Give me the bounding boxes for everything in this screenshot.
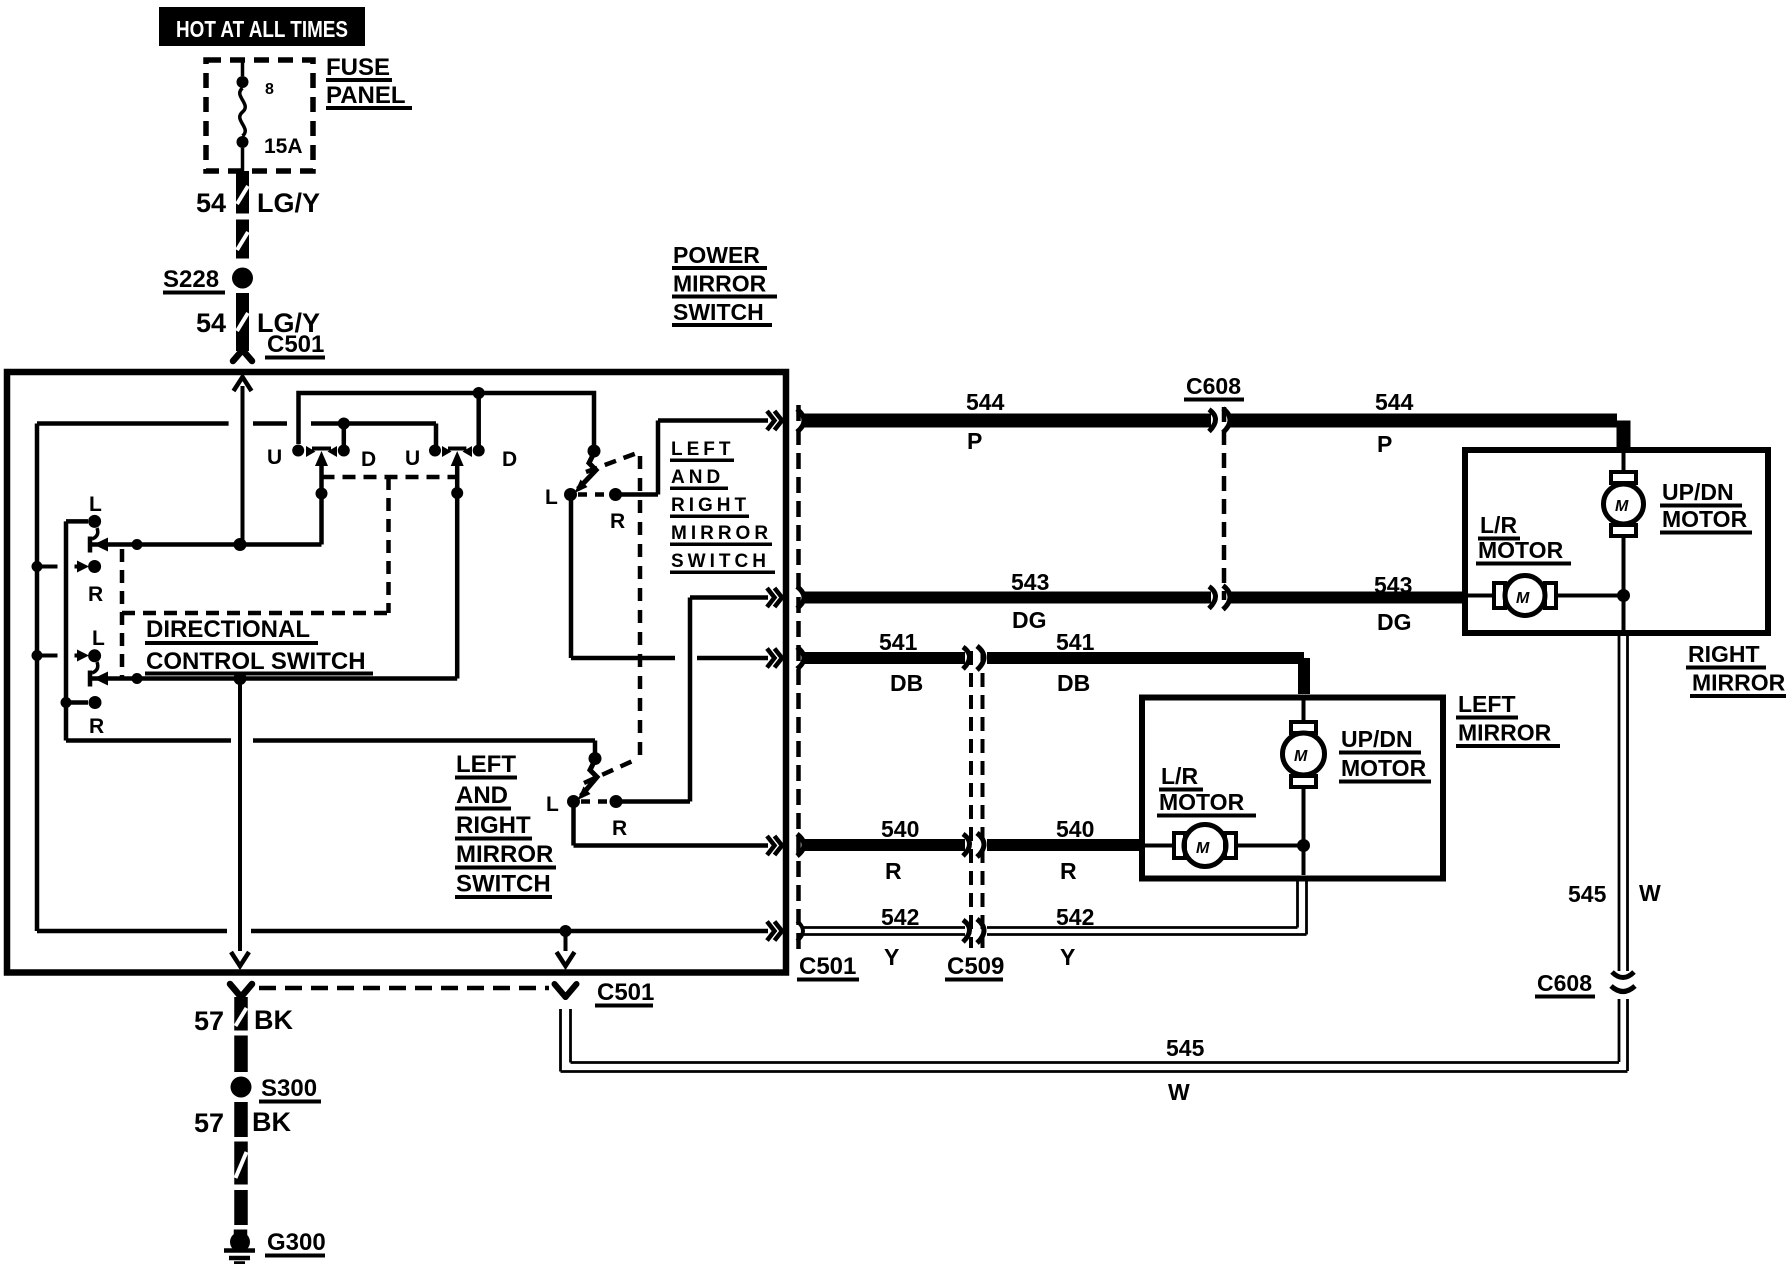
wire lower R contact to 543 output — [616, 598, 768, 802]
svg-text:U: U — [267, 446, 282, 469]
svg-text:C608: C608 — [1537, 970, 1592, 996]
connector C501 (top) — [236, 344, 249, 351]
svg-text:MOTOR: MOTOR — [1662, 506, 1748, 532]
svg-text:RIGHT: RIGHT — [1688, 641, 1760, 667]
wire 541 DB — [803, 652, 965, 664]
left mirror housing — [1142, 698, 1443, 879]
svg-text:W: W — [1168, 1079, 1190, 1105]
switch housing box — [7, 372, 786, 973]
svg-text:540: 540 — [1056, 816, 1094, 842]
l/r motor (right mirror) — [1468, 594, 1494, 598]
svg-text:Y: Y — [884, 944, 899, 970]
svg-text:L: L — [546, 793, 559, 816]
wire ground return bus — [37, 929, 768, 934]
up/dn motor (right mirror) — [1622, 449, 1626, 472]
wire upper L contact to 541 output — [571, 495, 768, 659]
svg-text:MOTOR: MOTOR — [1341, 755, 1427, 781]
svg-text:CONTROL SWITCH: CONTROL SWITCH — [146, 648, 366, 675]
svg-text:L/R: L/R — [1161, 763, 1198, 789]
wire 57 BK upper — [234, 997, 248, 1072]
svg-text:C608: C608 — [1186, 373, 1241, 399]
svg-text:SWITCH: SWITCH — [671, 551, 770, 572]
svg-text:SWITCH: SWITCH — [456, 871, 551, 898]
mech link lower switch — [584, 759, 637, 783]
directional switch pole1 contact R — [37, 565, 84, 569]
directional switch pole2 contact R — [89, 696, 102, 709]
directional switch pole2 contact L — [37, 654, 84, 658]
svg-text:R: R — [612, 817, 627, 840]
connector C501 switch face — [796, 405, 801, 950]
svg-text:R: R — [610, 510, 625, 533]
ground G300 — [230, 1232, 250, 1252]
svg-text:MIRROR: MIRROR — [673, 271, 767, 297]
svg-text:L: L — [545, 486, 558, 509]
svg-text:541: 541 — [879, 629, 918, 655]
svg-text:DG: DG — [1012, 607, 1047, 633]
wire 542 Y — [803, 878, 1307, 935]
svg-text:UP/DN: UP/DN — [1662, 479, 1734, 505]
svg-text:MIRROR: MIRROR — [1458, 720, 1552, 746]
svg-text:MOTOR: MOTOR — [1159, 789, 1245, 815]
svg-text:R: R — [89, 715, 104, 738]
connector C608 (upper) — [1222, 407, 1227, 600]
svg-text:544: 544 — [1375, 389, 1414, 415]
svg-text:MOTOR: MOTOR — [1478, 537, 1564, 563]
node on bus B — [338, 418, 350, 430]
svg-text:545: 545 — [1166, 1035, 1205, 1061]
contact U1 — [292, 445, 304, 457]
svg-text:C501: C501 — [267, 331, 324, 358]
l/r motor (left mirror) — [1145, 844, 1174, 848]
svg-text:RIGHT: RIGHT — [671, 495, 750, 516]
svg-text:MIRROR: MIRROR — [671, 523, 772, 544]
up/dn motor (left mirror) — [1302, 697, 1306, 722]
svg-text:MIRROR: MIRROR — [456, 841, 553, 868]
svg-text:57: 57 — [194, 1006, 224, 1036]
connector C501 (below box, right half) — [555, 984, 577, 997]
svg-text:54: 54 — [196, 308, 226, 338]
fuse F8 15A — [240, 62, 245, 171]
wire 54 LG/Y S228 to C501 — [236, 293, 249, 344]
svg-text:DB: DB — [890, 670, 923, 696]
svg-text:AND: AND — [456, 782, 508, 809]
svg-text:PANEL: PANEL — [326, 82, 406, 109]
svg-text:M: M — [1294, 748, 1308, 765]
wire D2 drop — [476, 393, 481, 445]
svg-text:POWER: POWER — [673, 242, 760, 268]
svg-text:G300: G300 — [267, 1229, 326, 1256]
svg-text:P: P — [1377, 431, 1392, 457]
wire ground branch — [564, 931, 568, 951]
svg-text:545: 545 — [1568, 881, 1607, 907]
splice S300 — [231, 1077, 252, 1098]
svg-text:L/R: L/R — [1480, 512, 1517, 538]
wire B+ vertical upper — [241, 386, 245, 545]
svg-text:LEFT: LEFT — [1458, 691, 1516, 717]
svg-text:542: 542 — [1056, 904, 1094, 930]
wire D1 drop — [342, 424, 347, 446]
svg-text:BK: BK — [252, 1107, 291, 1137]
label FUSE PANEL — [326, 54, 412, 110]
wire 540 R — [803, 839, 965, 851]
svg-text:DB: DB — [1057, 670, 1090, 696]
label DIRECTIONAL CONTROL SWITCH — [145, 616, 373, 676]
svg-text:W: W — [1639, 880, 1661, 906]
directional switch pole1 contact L — [88, 515, 101, 528]
svg-text:L: L — [89, 493, 102, 516]
wire 57 BK lower — [234, 1102, 248, 1237]
wire 545 W vertical — [1622, 596, 1626, 631]
splice S228 — [232, 268, 253, 289]
svg-text:542: 542 — [881, 904, 919, 930]
wire bus B (D1/U2 feed) — [37, 424, 436, 448]
lower mirror select switch — [589, 752, 602, 765]
label LEFT AND RIGHT MIRROR SWITCH (lower) — [455, 751, 556, 899]
label POWER MIRROR SWITCH — [672, 242, 777, 327]
wire bus A (U1/D2 feed) — [299, 393, 595, 447]
wire B+ vertical lower to ground — [238, 679, 242, 952]
svg-text:C501: C501 — [799, 953, 856, 980]
svg-text:R: R — [1060, 858, 1077, 884]
svg-text:C501: C501 — [597, 979, 654, 1006]
svg-text:544: 544 — [966, 389, 1005, 415]
hot-at-all-times banner — [159, 7, 365, 46]
up/down switch pole 2 pivot — [448, 447, 466, 451]
svg-text:P: P — [967, 428, 982, 454]
svg-text:543: 543 — [1011, 569, 1049, 595]
wire 543 DG — [803, 592, 1211, 604]
svg-text:M: M — [1196, 840, 1210, 857]
contact D2 — [473, 445, 485, 457]
wire ladder to lower mirror-select switch — [66, 741, 595, 757]
up/down switch pole 1 pivot — [312, 447, 331, 451]
svg-text:M: M — [1615, 498, 1629, 515]
connector C501 (below box, left half) — [230, 984, 252, 997]
node on bus A — [473, 387, 485, 399]
wire 54 LG/Y fuse to S228 — [236, 171, 249, 259]
mechanical link up/down poles — [122, 477, 457, 677]
wire lower L contact to 540 output — [574, 802, 769, 846]
svg-text:54: 54 — [196, 188, 226, 218]
svg-text:8: 8 — [265, 81, 274, 98]
svg-text:LG/Y: LG/Y — [257, 188, 320, 218]
svg-text:543: 543 — [1374, 572, 1412, 598]
svg-text:D: D — [361, 448, 376, 471]
contact U2 — [429, 445, 441, 457]
svg-text:MIRROR: MIRROR — [1692, 670, 1786, 696]
connector C608 (lower) — [1611, 972, 1635, 992]
wire B+ entry arrow — [234, 377, 252, 391]
mech link upper switch — [586, 453, 637, 472]
wire upper R contact to 544 output — [616, 421, 769, 495]
wire contact ladder rail — [64, 521, 69, 740]
svg-text:L: L — [92, 627, 105, 650]
svg-text:S228: S228 — [163, 266, 219, 293]
label LEFT AND RIGHT MIRROR SWITCH (upper) — [670, 439, 775, 574]
svg-text:LEFT: LEFT — [456, 751, 516, 778]
connector C501 mating line — [259, 986, 549, 991]
upper mirror select switch — [588, 445, 601, 458]
wire left feed rail — [35, 424, 40, 932]
svg-text:HOT AT ALL TIMES: HOT AT ALL TIMES — [176, 16, 348, 42]
svg-text:D: D — [502, 448, 517, 471]
svg-text:Y: Y — [1060, 944, 1075, 970]
svg-text:15A: 15A — [264, 135, 303, 158]
svg-text:C509: C509 — [947, 953, 1004, 980]
svg-text:M: M — [1516, 590, 1530, 607]
svg-text:UP/DN: UP/DN — [1341, 726, 1413, 752]
svg-text:540: 540 — [881, 816, 919, 842]
svg-text:SWITCH: SWITCH — [673, 299, 764, 325]
right mirror housing — [1465, 450, 1768, 633]
svg-text:BK: BK — [254, 1005, 293, 1035]
contact D1 — [338, 445, 350, 457]
svg-text:RIGHT: RIGHT — [456, 812, 531, 839]
svg-text:FUSE: FUSE — [326, 54, 390, 81]
svg-text:DG: DG — [1377, 609, 1412, 635]
svg-text:DIRECTIONAL: DIRECTIONAL — [146, 616, 310, 643]
wire pivot-1 bus — [90, 542, 322, 547]
svg-text:541: 541 — [1056, 629, 1095, 655]
svg-text:R: R — [885, 858, 902, 884]
svg-text:S300: S300 — [261, 1075, 317, 1102]
wire 544 P — [803, 414, 1211, 428]
svg-text:LEFT: LEFT — [671, 439, 735, 460]
wire pivot-2 bus — [90, 676, 457, 681]
svg-text:U: U — [405, 447, 420, 470]
fuse panel box — [206, 60, 313, 171]
svg-text:AND: AND — [671, 467, 724, 488]
connector C509 — [969, 651, 973, 948]
svg-text:57: 57 — [194, 1108, 224, 1138]
svg-text:R: R — [88, 583, 103, 606]
